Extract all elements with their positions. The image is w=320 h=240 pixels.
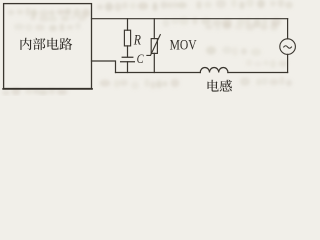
AC source G1 circle [280,39,296,55]
varistor MOV diagonal [147,35,160,56]
AC source G1 tilde [284,46,292,48]
varistor MOV body [151,39,157,54]
wire source to bottom corner [287,54,289,72]
resistor R lead bottom [127,46,129,57]
wire bottom right segment [228,72,288,74]
varistor MOV lead top [153,19,155,39]
capacitor C lead bottom [127,62,129,73]
capacitor C plates [121,57,135,62]
internal circuit box bottom edge emphasis [3,88,92,90]
svg-text:R: R [133,32,141,48]
svg-text:C: C [137,51,144,66]
internal circuit box [4,4,92,89]
wire step to box [92,61,116,73]
resistor R body [124,30,130,46]
wire bottom left segment [116,72,201,74]
varistor MOV lead bottom [153,53,155,72]
resistor R lead top [127,19,129,31]
svg-text:MOV: MOV [170,37,197,53]
inductor L coil [200,68,228,73]
label 电感 [208,80,232,92]
label 内部电路 [20,38,72,50]
wire top [92,18,288,20]
wire right drop [287,19,289,39]
